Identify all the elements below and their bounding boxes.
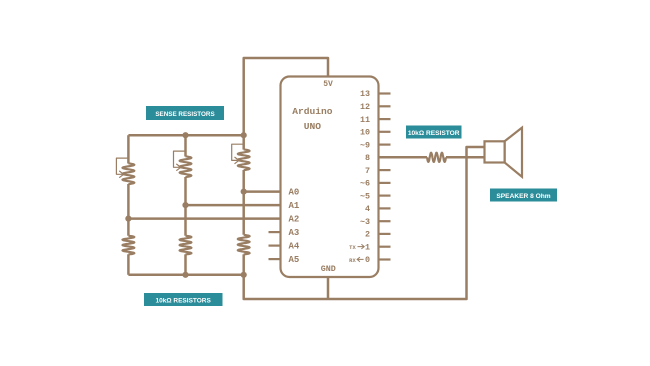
svg-text:~9: ~9	[360, 140, 370, 150]
resistor R4 10k (horizontal)	[427, 153, 446, 162]
pin 13 stub	[379, 92, 391, 94]
wire bottom rail of 10k resistors	[128, 274, 243, 277]
svg-text:7: 7	[365, 166, 370, 176]
sense resistor RS3 (right column)	[238, 135, 250, 235]
Arduino U1 body	[281, 77, 379, 278]
svg-text:SENSE RESISTORS: SENSE RESISTORS	[155, 111, 214, 118]
svg-text:5V: 5V	[323, 80, 333, 89]
wire top rail	[128, 134, 243, 137]
pin 5 stub	[379, 195, 391, 197]
pin 10 stub	[379, 131, 391, 133]
pin 3 stub	[379, 220, 391, 222]
svg-text:8: 8	[365, 153, 370, 163]
sense resistor RS2 (middle column)	[180, 135, 192, 236]
pin 9 stub	[379, 144, 391, 146]
svg-text:A3: A3	[289, 228, 300, 238]
svg-text:4: 4	[365, 204, 370, 214]
Arduino U1 labels	[289, 80, 371, 274]
resistor R2 10k (middle column)	[180, 236, 192, 275]
pin label TX→1	[349, 242, 370, 252]
pin 11 stub	[379, 118, 391, 120]
node: A2 junction	[125, 216, 131, 222]
wire 5V loop from Arduino 5V pin to sense-resistor top rail	[244, 58, 328, 135]
node: bottom rail / right column junction	[241, 272, 247, 278]
svg-text:GND: GND	[321, 264, 336, 274]
svg-text:0: 0	[365, 255, 370, 265]
node: top rail / middle column junction	[182, 132, 188, 138]
svg-text:A2: A2	[289, 215, 300, 225]
pin A5 stub	[269, 258, 281, 260]
svg-text:UNO: UNO	[304, 121, 322, 132]
label 10kΩ RESISTORS	[144, 293, 223, 306]
svg-text:1: 1	[365, 242, 370, 252]
annotation labels	[144, 106, 557, 306]
svg-text:SPEAKER 8 Ohm: SPEAKER 8 Ohm	[496, 193, 550, 200]
label SENSE RESISTORS	[146, 106, 224, 120]
svg-text:10kΩ RESISTORS: 10kΩ RESISTORS	[156, 297, 212, 304]
resistor R3 10k (right column)	[238, 235, 250, 275]
pin 0 stub	[379, 258, 391, 260]
svg-text:A1: A1	[289, 201, 300, 211]
svg-text:A5: A5	[289, 255, 300, 265]
svg-text:12: 12	[360, 102, 370, 112]
node: A0 junction	[241, 189, 247, 195]
wire GND stub from Arduino to ground rail	[327, 277, 330, 299]
svg-text:13: 13	[360, 89, 370, 99]
svg-text:10: 10	[360, 128, 370, 138]
arrow mark of sense resistor RS1	[116, 158, 128, 178]
pin 4 stub	[379, 207, 391, 209]
wire A1	[186, 204, 281, 207]
speaker LS1	[485, 128, 523, 177]
node: bottom rail / middle column junction	[182, 272, 188, 278]
svg-text:11: 11	[360, 115, 370, 125]
pin 2 stub	[379, 233, 391, 235]
node: A1 junction	[182, 202, 188, 208]
pin 12 stub	[379, 105, 391, 107]
svg-text:~5: ~5	[360, 191, 370, 201]
svg-text:~3: ~3	[360, 217, 370, 227]
wire ground rail from resistors to speaker	[244, 147, 485, 299]
wire resistor R4 to speaker	[446, 156, 485, 159]
arrow mark of sense resistor RS2	[174, 151, 186, 171]
svg-text:~6: ~6	[360, 179, 370, 189]
wire A2	[128, 217, 280, 220]
svg-text:A0: A0	[289, 188, 300, 198]
label SPEAKER 8 Ohm	[490, 189, 557, 202]
sense resistor RS1 (left column)	[123, 135, 135, 236]
pin 1 stub	[379, 246, 391, 248]
node: top rail / right column / 5V junction	[241, 132, 247, 138]
Arduino U1 right pin stubs 13..0	[269, 94, 391, 260]
wire pin 8 to speaker through resistor R4	[379, 156, 428, 159]
svg-text:10kΩ RESISTOR: 10kΩ RESISTOR	[408, 130, 460, 137]
svg-text:RX: RX	[349, 258, 356, 264]
wire A0	[244, 190, 281, 193]
pin 7 stub	[379, 169, 391, 171]
pin A4 stub	[269, 245, 281, 247]
svg-text:2: 2	[365, 230, 370, 240]
svg-text:A4: A4	[289, 242, 300, 252]
pin label RX←0	[349, 255, 370, 265]
label 10kΩ RESISTOR	[406, 126, 462, 139]
svg-text:TX: TX	[349, 245, 356, 251]
arrow mark of sense resistor RS3	[232, 144, 244, 164]
resistor R1 10k (left column)	[123, 236, 135, 275]
pin 6 stub	[379, 182, 391, 184]
pin A3 stub	[269, 231, 281, 233]
svg-text:Arduino: Arduino	[292, 106, 333, 117]
